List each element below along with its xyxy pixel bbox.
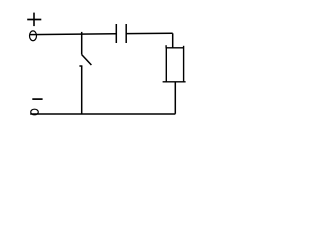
switch S1: open blade <box>82 55 92 65</box>
wire: top-left segment from + terminal to capacitor <box>30 33 116 36</box>
wire: top-right segment from capacitor to right corner <box>126 32 173 34</box>
resistor R1 (rectangle, drawn as strokes) <box>163 45 186 82</box>
minus sign label (battery negative) <box>32 98 42 100</box>
wire: right vertical lead down to resistor <box>172 33 174 48</box>
switch S1: bottom lead <box>81 66 83 114</box>
resistor bottom lead <box>174 82 176 114</box>
node: negative terminal (open circle) <box>31 109 39 115</box>
plus sign label (battery positive) <box>27 13 41 27</box>
capacitor C1 <box>116 24 126 43</box>
node: positive terminal (open circle) <box>30 31 37 41</box>
wire: bottom segment <box>30 113 175 115</box>
switch S1: top lead <box>81 32 83 55</box>
switch S1: fixed contact tick <box>79 65 82 67</box>
